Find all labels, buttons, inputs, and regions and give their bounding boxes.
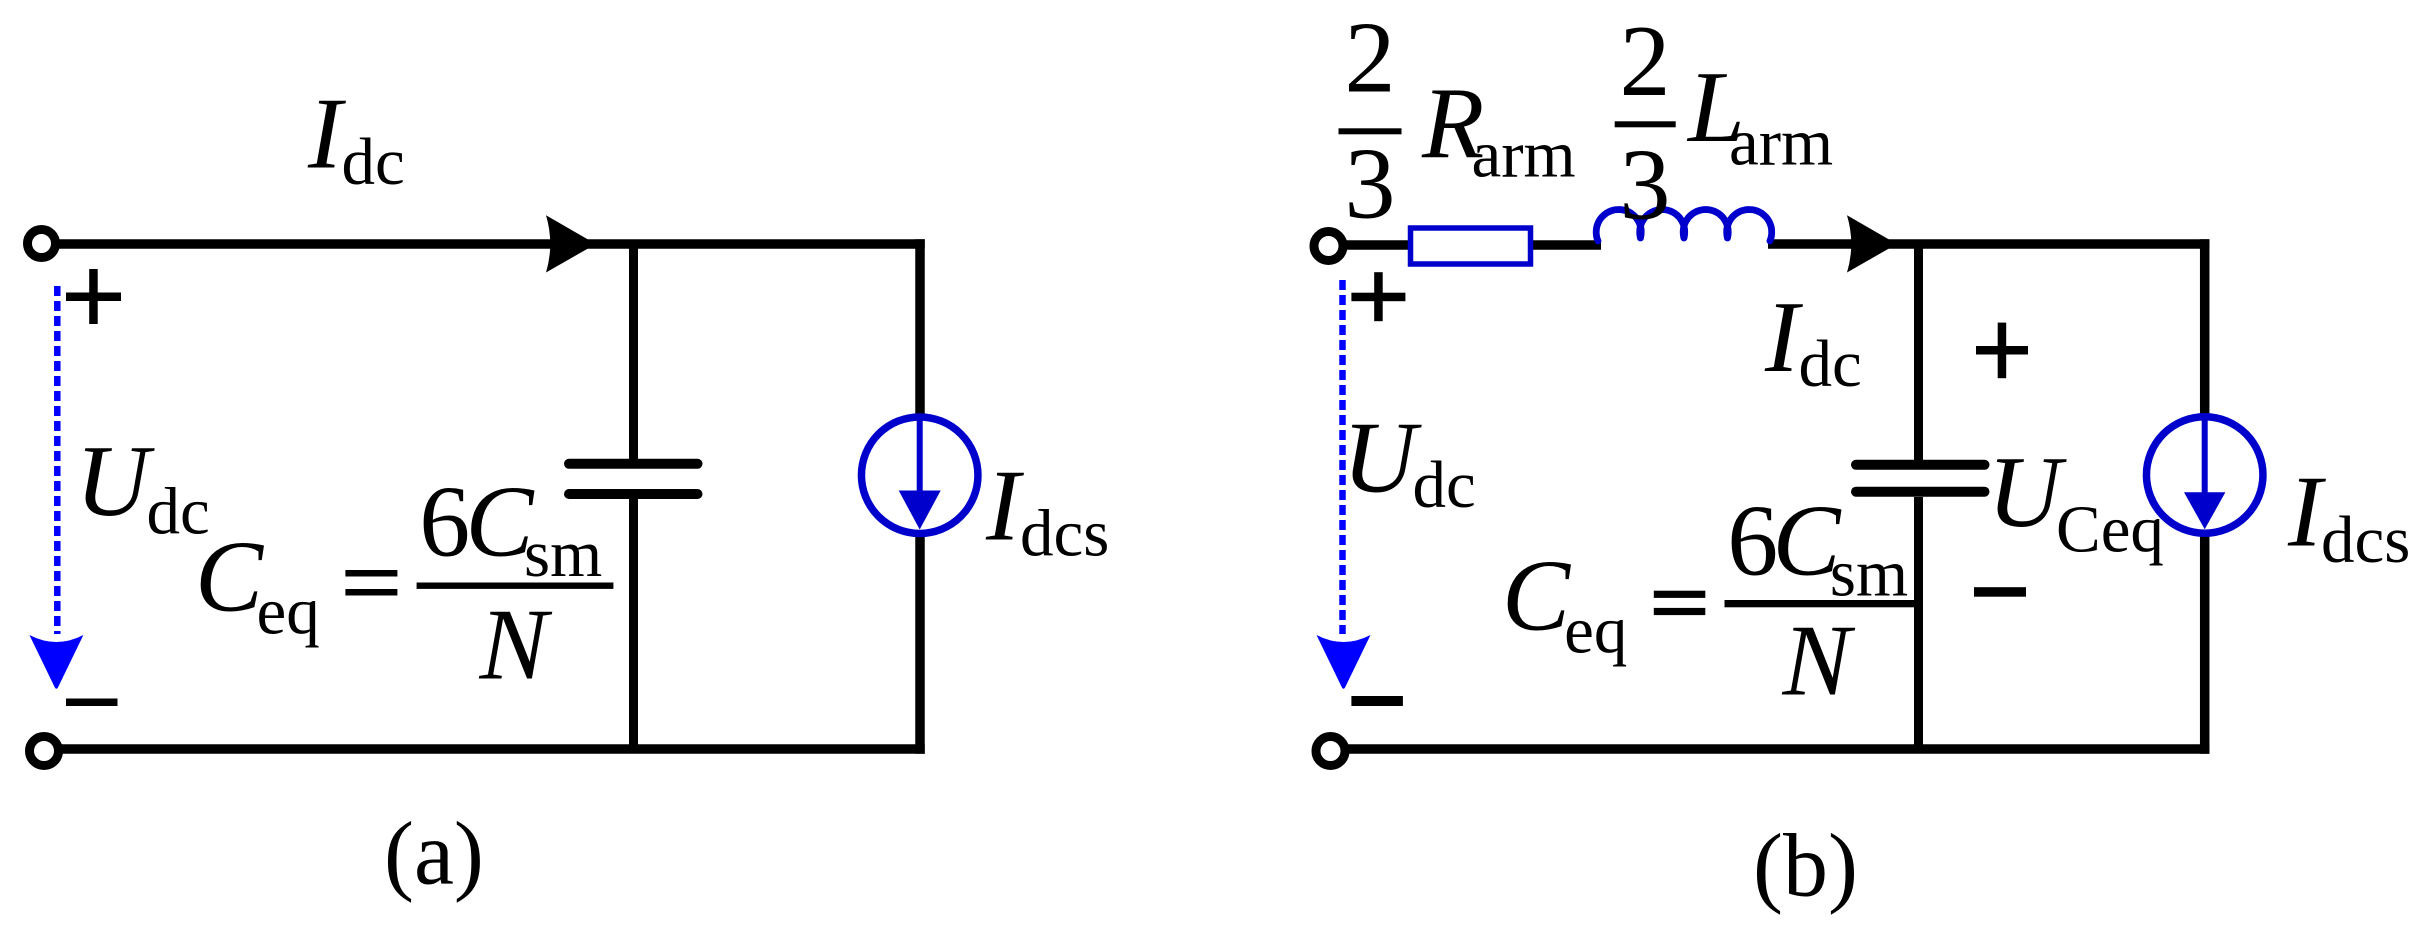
wire: bottom wire (a) bbox=[60, 744, 925, 754]
fraction bar (b) bbox=[1725, 600, 1916, 607]
current direction arrow I_dc (b) bbox=[1847, 215, 1897, 272]
terminal: positive terminal (b) bbox=[1314, 232, 1343, 261]
terminal: negative terminal (b) bbox=[1316, 737, 1345, 766]
current source I_dcs (b) bbox=[2146, 417, 2263, 534]
svg-text:(a): (a) bbox=[384, 805, 484, 904]
svg-text:I: I bbox=[307, 78, 346, 191]
wire: capacitor branch lower (a) bbox=[629, 497, 638, 750]
current source I_dcs (a) bbox=[861, 417, 978, 534]
wire: bottom wire (b) bbox=[1347, 744, 2209, 754]
svg-text:3: 3 bbox=[1620, 129, 1671, 242]
wire: top wire (a) bbox=[57, 239, 925, 249]
resistor 2/3 R_arm (b) bbox=[1411, 228, 1531, 264]
wire: after inductor to corner (b) bbox=[1768, 239, 2209, 249]
wire: capacitor branch upper (b) bbox=[1914, 240, 1923, 461]
fraction bar (a) bbox=[417, 583, 614, 589]
svg-text:dc: dc bbox=[342, 125, 405, 199]
plus sign left (b) bbox=[1351, 272, 1405, 321]
svg-text:3: 3 bbox=[1345, 128, 1396, 241]
svg-text:2: 2 bbox=[1345, 2, 1396, 115]
svg-text:C: C bbox=[1502, 540, 1571, 653]
equals sign (b) bbox=[1654, 591, 1706, 615]
terminal: negative terminal (a) bbox=[30, 737, 59, 766]
wire: capacitor branch upper (a) bbox=[629, 240, 638, 461]
svg-text:arm: arm bbox=[1729, 106, 1833, 180]
voltage arrow U_dc dashed (a) bbox=[29, 286, 83, 689]
wire: right branch lower (a) bbox=[915, 534, 925, 754]
svg-text:I: I bbox=[1764, 281, 1803, 394]
plus sign (a) bbox=[66, 269, 121, 324]
capacitor C_eq plates (a) bbox=[569, 464, 698, 494]
minus sign at capacitor (b) bbox=[1974, 587, 2026, 597]
svg-text:I: I bbox=[985, 450, 1024, 563]
wire: right branch upper (b) bbox=[2200, 239, 2210, 418]
inductor 2/3 L_arm (b) bbox=[1596, 210, 1772, 242]
svg-text:dc: dc bbox=[1413, 448, 1476, 522]
minus sign below arrow (b) bbox=[1351, 696, 1403, 706]
fraction bar of 2/3 L_arm (b) bbox=[1615, 121, 1676, 127]
wire: top wire left segment (b) bbox=[1344, 240, 1412, 250]
wire: capacitor branch lower (b) bbox=[1914, 497, 1923, 750]
svg-text:sm: sm bbox=[524, 517, 602, 591]
svg-text:dc: dc bbox=[1799, 327, 1862, 401]
svg-text:C: C bbox=[195, 521, 264, 634]
svg-text:2: 2 bbox=[1620, 5, 1671, 118]
plus sign at capacitor (b) bbox=[1976, 323, 2028, 379]
capacitor C_eq plates (b) bbox=[1856, 465, 1985, 492]
fraction bar of 2/3 R_arm (b) bbox=[1339, 128, 1402, 134]
terminal: positive terminal (a) bbox=[28, 230, 56, 258]
voltage arrow U_dc dashed (b) bbox=[1317, 280, 1371, 689]
svg-text:N: N bbox=[479, 589, 553, 702]
svg-text:eq: eq bbox=[1564, 594, 1627, 668]
svg-text:6: 6 bbox=[419, 466, 470, 579]
current direction arrow I_dc (a) bbox=[546, 215, 596, 272]
svg-text:(b): (b) bbox=[1753, 817, 1858, 916]
svg-text:6: 6 bbox=[1727, 485, 1778, 598]
svg-text:dcs: dcs bbox=[2321, 503, 2410, 577]
svg-text:N: N bbox=[1782, 605, 1856, 718]
equals sign (a) bbox=[345, 570, 397, 596]
wire: right branch lower (b) bbox=[2200, 534, 2210, 754]
svg-text:U: U bbox=[76, 425, 156, 538]
svg-text:dcs: dcs bbox=[1020, 497, 1109, 571]
wire: between resistor and inductor (b) bbox=[1530, 240, 1601, 250]
svg-text:U: U bbox=[1343, 402, 1423, 515]
svg-text:arm: arm bbox=[1472, 118, 1576, 192]
svg-text:sm: sm bbox=[1830, 537, 1908, 611]
svg-text:eq: eq bbox=[257, 575, 320, 649]
svg-text:Ceq: Ceq bbox=[2056, 493, 2164, 567]
minus sign (a) bbox=[66, 699, 118, 707]
wire: right branch upper (a) bbox=[915, 239, 925, 418]
